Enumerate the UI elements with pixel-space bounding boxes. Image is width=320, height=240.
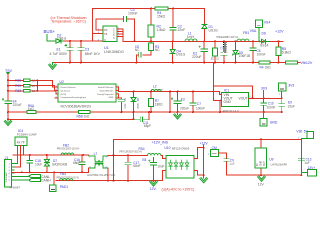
note thermal shutdown (50, 16, 86, 24)
wire +12V column (203, 145, 205, 178)
svg-text:1.8kΩ: 1.8kΩ (157, 28, 166, 32)
resistor R7 180 (150, 92, 152, 113)
svg-text:V5A: V5A (250, 29, 257, 33)
resistor R12 (214, 41, 216, 62)
junction (7, 85, 9, 87)
junction (133, 111, 135, 113)
wire U2 out (116, 87, 122, 98)
svg-text:2kΩ: 2kΩ (265, 65, 271, 69)
svg-text:BP: BP (104, 30, 108, 32)
supply 3V3 box (278, 83, 286, 91)
svg-text:68nF: 68nF (133, 164, 140, 168)
capacitor E1 (69, 41, 71, 63)
svg-text:GND: GND (109, 97, 114, 99)
wire bottom y175.2 (226, 174, 301, 176)
wire +12V_INS (114, 139, 302, 180)
svg-text:L7: L7 (94, 152, 98, 156)
inductor L2 (151, 90, 161, 92)
svg-text:NC: NC (155, 48, 160, 52)
svg-text:OUT: OUT (264, 161, 266, 166)
capacitor C3 (80, 41, 82, 63)
junction (223, 40, 225, 42)
junction (29, 154, 31, 156)
resistor R4 15k (155, 7, 168, 10)
svg-text:CM: CM (212, 146, 217, 150)
capacitor C18 10uF (29, 155, 31, 172)
junction (7, 90, 9, 92)
junction (223, 62, 225, 64)
resistor R4b 2k (258, 62, 260, 64)
svg-text:(U(A)-40'C to +105'C): (U(A)-40'C to +105'C) (162, 188, 195, 192)
svg-text:220uF: 220uF (192, 55, 202, 59)
wire switch rail y41.3 (123, 40, 283, 42)
junction (203, 174, 205, 176)
junction (203, 147, 205, 149)
wire FB stub (92, 33, 103, 35)
junction (7, 118, 9, 120)
junction (53, 171, 55, 173)
ground 12V- (150, 181, 158, 186)
junction (278, 62, 280, 64)
junction (133, 91, 135, 93)
connector J1 (4, 159, 11, 187)
capacitor E4 220uF (7, 104, 9, 120)
junction (113, 154, 115, 156)
svg-text:UA78L05A/PK: UA78L05A/PK (271, 162, 288, 166)
wire vout y98.3 (249, 97, 282, 99)
diode D6 SS14 (259, 39, 268, 43)
wire riser x170 (169, 92, 171, 113)
svg-text:1uF: 1uF (304, 161, 310, 165)
svg-text:+12V: +12V (200, 142, 209, 146)
svg-text:IN: IN (257, 163, 259, 166)
diode D5 zener (235, 41, 237, 62)
svg-text:100nF: 100nF (128, 11, 138, 15)
wire 5V column (300, 139, 302, 175)
junction (46, 154, 48, 156)
node CANH (12, 179, 29, 181)
junction (263, 97, 265, 99)
svg-text:10uF: 10uF (35, 162, 42, 166)
svg-text:C7: C7 (197, 102, 201, 106)
supply 12V+ (307, 169, 316, 176)
wire lower y172.3 (12, 171, 89, 173)
junction top rail (150, 8, 152, 10)
wire IC1 vin feed (214, 63, 221, 101)
ground (258, 176, 266, 181)
svg-text:Timing/Capacitor: Timing/Capacitor (97, 93, 114, 96)
diode D8 zener (133, 92, 135, 120)
svg-text:US1G: US1G (209, 28, 219, 32)
op-amp U2 NCV3063 (58, 84, 116, 102)
junction (69, 62, 71, 64)
junction (203, 40, 205, 42)
svg-text:LNK306DG: LNK306DG (104, 49, 124, 54)
resistor R6B 1k (79, 111, 91, 114)
capacitor C17 68nF (127, 155, 129, 180)
capacitor C11 68pF (134, 117, 150, 122)
resistor R6A 1k (27, 111, 36, 114)
svg-text:PH5A9T: PH5A9T (10, 186, 21, 190)
svg-text:US1G: US1G (176, 53, 186, 57)
svg-text:SS14: SS14 (260, 43, 268, 47)
svg-text:L2: L2 (153, 84, 157, 88)
svg-text:330uH: 330uH (157, 89, 164, 91)
ground PAD1 flag (53, 172, 55, 185)
resistor R11 (8, 86, 58, 91)
svg-text:Z5V6: Z5V6 (138, 103, 140, 109)
node CANL (12, 175, 29, 177)
capacitor C7 100nF (192, 92, 194, 113)
capacitor C8 NC (139, 52, 141, 57)
ground (49, 63, 57, 70)
svg-text:GND: GND (270, 121, 278, 125)
svg-text:R11: R11 (15, 84, 21, 88)
svg-text:VOUT: VOUT (239, 97, 248, 101)
junction (260, 138, 262, 140)
op-amp U1 LNK306DG (103, 26, 117, 42)
junction (127, 180, 129, 182)
ground (174, 112, 182, 119)
junction (150, 40, 152, 42)
diode D7 SA30CA tvs (46, 155, 48, 172)
svg-text:Switch/Emitter: Switch/Emitter (100, 89, 114, 92)
svg-text:NC: NC (135, 48, 140, 52)
junction (150, 111, 152, 113)
inductor L1 1mH (185, 39, 197, 41)
capacitor C13 1uF (298, 158, 304, 161)
junction (169, 111, 171, 113)
junction (214, 40, 216, 42)
svg-text:1uF: 1uF (229, 162, 235, 166)
svg-text:1Ω: 1Ω (32, 84, 36, 88)
junction (169, 91, 171, 93)
diode D1 US1G (204, 9, 206, 42)
wire left riser (7, 74, 9, 101)
junction (177, 111, 179, 113)
wire bridge out + (194, 148, 204, 159)
svg-text:+12V_INS: +12V_INS (152, 141, 169, 145)
junction (107, 180, 109, 182)
svg-text:100nF: 100nF (257, 53, 266, 57)
wire gnd riser x220 (220, 101, 222, 112)
svg-text:22uF: 22uF (288, 105, 295, 109)
junction (153, 180, 155, 182)
svg-text:R12: R12 (15, 89, 21, 93)
svg-text:3V3: 3V3 (288, 83, 294, 87)
svg-text:C3: C3 (85, 47, 89, 51)
resistor R2 1.8k (150, 9, 152, 42)
capacitor C9b 1uF (219, 153, 227, 175)
wire left riser (91, 9, 93, 42)
junction (136, 62, 138, 64)
svg-text:VS4: VS4 (264, 21, 271, 25)
op-amp IC1 AMS1117 (222, 93, 249, 107)
junction (252, 40, 254, 42)
svg-text:Switch/Collector: Switch/Collector (98, 86, 114, 89)
junction (235, 62, 237, 64)
wire xfmr right top (108, 154, 148, 157)
svg-text:FB4: FB4 (60, 172, 66, 176)
junction (7, 79, 9, 81)
junction (252, 97, 254, 99)
svg-text:10uF: 10uF (157, 165, 164, 169)
junction (192, 91, 194, 93)
ground (200, 178, 208, 183)
junction (36, 85, 38, 87)
svg-text:BF12S-DW05: BF12S-DW05 (172, 146, 190, 150)
svg-text:180Ω: 180Ω (155, 102, 163, 106)
wire BP loop (96, 19, 123, 30)
transformer L7 ACM7060 (83, 154, 89, 156)
svg-text:100nF: 100nF (266, 106, 275, 110)
svg-text:V30: V30 (296, 130, 302, 134)
junction (150, 91, 152, 93)
junction (260, 174, 262, 176)
capacitor C9 (121, 98, 123, 112)
svg-text:BUS+: BUS+ (44, 29, 56, 34)
svg-text:SA30CA/B: SA30CA/B (52, 162, 67, 166)
capacitor E3 220uF (177, 92, 179, 113)
resistor R12b (8, 91, 58, 94)
junction (134, 40, 136, 42)
svg-text:(FC0): (FC0) (61, 94, 67, 96)
op-amp U10 bridge (166, 156, 194, 179)
junction (82, 154, 84, 156)
junction (81, 171, 83, 173)
svg-text:Z06F1B: Z06F1B (239, 54, 250, 58)
junction (177, 91, 179, 93)
svg-text:1Ω: 1Ω (32, 89, 36, 93)
capacitor E8 10uF (153, 158, 155, 181)
svg-text:FB4: FB4 (139, 147, 145, 151)
svg-text:PRV20C200T-101Y-N: PRV20C200T-101Y-N (57, 149, 80, 151)
svg-text:1mH: 1mH (187, 35, 195, 39)
svg-text:U9: U9 (269, 158, 273, 162)
svg-text:E8: E8 (142, 158, 146, 162)
junction (36, 90, 38, 92)
junction (281, 111, 283, 113)
cursor checkered marker (223, 42, 226, 53)
wire rail A y112 (8, 111, 282, 113)
wire gnd rail y62.5 (53, 62, 260, 64)
svg-text:E3: E3 (181, 97, 185, 101)
wire (47, 35, 54, 42)
connector J1 pin stubs (12, 164, 15, 180)
junction (214, 62, 216, 64)
wire input rail y41 (64, 40, 103, 42)
svg-text:IC1: IC1 (224, 89, 229, 93)
resistor R3 NC (143, 41, 151, 55)
junction (281, 97, 283, 99)
svg-text:R6B: R6B (77, 115, 83, 119)
svg-text:100nF: 100nF (196, 106, 205, 110)
junction (172, 62, 174, 64)
capacitor C16 68nF (81, 155, 83, 172)
junction (192, 111, 194, 113)
wire row tie (36, 80, 38, 91)
svg-text:68nF: 68nF (73, 161, 80, 165)
svg-text:P6KE200BT-101Y-N: P6KE200BT-101Y-N (217, 36, 239, 39)
svg-text:U2: U2 (60, 80, 64, 84)
svg-text:NCV3063BAVDR2G: NCV3063BAVDR2G (61, 105, 92, 109)
svg-text:+12V: +12V (275, 30, 284, 34)
svg-text:GND: GND (224, 100, 232, 104)
junction top rail (172, 8, 174, 10)
junction (148, 111, 150, 113)
svg-text:FB1: FB1 (243, 31, 249, 35)
svg-text:ACM7060-701-2PL-TL01: ACM7060-701-2PL-TL01 (87, 174, 116, 177)
svg-text:6.8kΩ: 6.8kΩ (282, 51, 291, 55)
svg-text:12V-: 12V- (150, 187, 157, 191)
junction (80, 62, 82, 64)
junction (258, 40, 260, 42)
junction (235, 40, 237, 42)
junction (36, 79, 38, 81)
svg-text:R10: R10 (15, 79, 21, 83)
resistor R10 (8, 80, 58, 87)
junction (80, 40, 82, 42)
diode D2 US1G (54, 39, 64, 43)
svg-text:FB2: FB2 (63, 144, 69, 148)
svg-text:220uF: 220uF (180, 106, 189, 110)
svg-text:Comparator/InvertingInput: Comparator/InvertingInput (61, 96, 87, 99)
wire VS4 stub (258, 28, 260, 42)
svg-text:J1: J1 (5, 156, 9, 160)
ground GND flag (263, 112, 265, 119)
svg-text:D6: D6 (262, 31, 266, 35)
resistor R6 (286, 61, 298, 64)
svg-text:GND: GND (261, 161, 263, 166)
svg-text:E9: E9 (288, 100, 292, 104)
svg-text:Ipk Sense: Ipk Sense (61, 90, 72, 92)
svg-text:U10: U10 (164, 146, 170, 150)
wire rail2 y180.7 (56, 171, 166, 181)
svg-text:100n: 100n (125, 103, 127, 109)
svg-text:Driver/Collector: Driver/Collector (61, 86, 76, 89)
wire IC1 loop (214, 86, 253, 99)
capacitor E9 22uF (279, 98, 285, 112)
svg-text:CANH: CANH (41, 178, 51, 182)
svg-text:PAD1: PAD1 (60, 185, 69, 189)
capacitor C2 22nF (172, 9, 174, 42)
wire top rail (92, 8, 204, 10)
junction (172, 40, 174, 42)
svg-text:F45-MAKT: F45-MAKT (5, 171, 8, 182)
junction (133, 118, 135, 120)
svg-text:4.7uF 500V: 4.7uF 500V (50, 52, 68, 56)
svg-text:4x 7F: 4x 7F (17, 140, 25, 144)
svg-text:68pF: 68pF (144, 124, 151, 128)
junction (29, 171, 31, 173)
capacitor C6 100nF (252, 41, 254, 62)
svg-text:Temperature: ~162'C): Temperature: ~162'C) (51, 19, 86, 23)
junction (121, 111, 123, 113)
junction (300, 174, 302, 176)
svg-text:1kΩ: 1kΩ (28, 107, 34, 111)
junction (46, 171, 48, 173)
junction (219, 111, 221, 113)
svg-text:PRYC0F200T-101Y-N: PRYC0F200T-101Y-N (120, 152, 143, 154)
junction (263, 111, 265, 113)
diode D3 US1G (172, 41, 174, 62)
wire xfmr right bottom (107, 168, 109, 181)
svg-text:22nF: 22nF (178, 28, 186, 32)
capacitor C10 100nF (263, 98, 265, 112)
wire S pins bus (117, 29, 123, 41)
wire mid rail y91.5 (119, 92, 222, 95)
supply VS4 (255, 20, 262, 28)
wire bridge out - (194, 171, 204, 176)
U2 pin numbers (56, 86, 120, 99)
svg-text:FB: FB (104, 34, 107, 36)
svg-text:1Ω: 1Ω (32, 79, 36, 83)
resistor R5 6.8k (278, 41, 280, 62)
svg-text:220uF: 220uF (13, 103, 22, 107)
fuse CM box (211, 149, 219, 156)
wire rail B y119.3 (8, 118, 134, 120)
wire U2 pin4 stub (55, 97, 58, 99)
svg-text:12V+: 12V+ (308, 166, 316, 170)
capacitor E2 220uF (203, 41, 205, 62)
junction (278, 40, 280, 42)
junction (113, 180, 115, 182)
svg-text:1kΩ: 1kΩ (84, 115, 90, 119)
junction (127, 154, 129, 156)
wire IC4 pins (12, 145, 18, 163)
svg-text:E1: E1 (57, 47, 61, 51)
svg-text:R4: R4 (260, 65, 264, 69)
svg-text:15kΩ: 15kΩ (157, 15, 165, 19)
svg-text:68nF 1KV: 68nF 1KV (85, 52, 101, 56)
capacitor C1 100nF (124, 17, 127, 22)
svg-text:AMS1117-3.3: AMS1117-3.3 (223, 109, 240, 113)
junction (7, 111, 9, 113)
op-amp U9 UA78L33 (260, 139, 262, 175)
svg-text:12V-: 12V- (258, 183, 265, 187)
junction (21, 171, 23, 173)
junction (203, 62, 205, 64)
svg-text:Vfb12V: Vfb12V (301, 61, 313, 65)
wire rail1 y155 (13, 154, 83, 156)
capacitor C5 (223, 41, 225, 62)
svg-text:US1G: US1G (57, 37, 67, 41)
svg-text:PCD84V-1140F: PCD84V-1140F (17, 132, 37, 136)
ground (4, 119, 12, 125)
junction (252, 62, 254, 64)
junction (69, 40, 71, 42)
